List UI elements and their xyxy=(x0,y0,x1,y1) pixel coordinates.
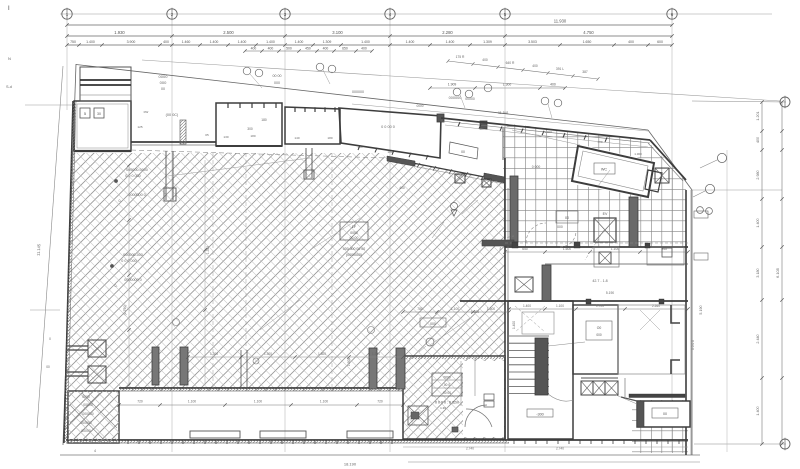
svg-text:400: 400 xyxy=(597,140,602,144)
trash connect wall xyxy=(621,397,637,401)
outside block top-left xyxy=(80,67,131,101)
svg-text:000000-000: 000000-000 xyxy=(123,253,143,257)
svg-text:1.100: 1.100 xyxy=(320,400,328,404)
grid axis vertical X3 xyxy=(284,20,286,453)
svg-text:0W: 0W xyxy=(144,110,149,114)
slanted dim chain upper xyxy=(448,61,598,79)
grid circle X5 xyxy=(500,9,510,19)
overall dim line xyxy=(67,24,672,26)
svg-text:EV: EV xyxy=(603,212,608,216)
svg-text:00000: 00000 xyxy=(465,97,475,101)
svg-text:720: 720 xyxy=(137,400,143,404)
svg-text:(0000000): (0000000) xyxy=(346,253,362,257)
svg-text:00: 00 xyxy=(663,412,667,416)
trash leader xyxy=(616,395,637,404)
left mat box lower xyxy=(88,366,106,383)
svg-text:1.400: 1.400 xyxy=(361,40,370,44)
svg-text:1.300: 1.300 xyxy=(544,130,552,134)
svg-text:1.650: 1.650 xyxy=(583,40,592,44)
svg-text:140: 140 xyxy=(357,145,362,149)
stair inner rect xyxy=(522,312,554,334)
entrance door arcs xyxy=(465,405,487,427)
entrance small box xyxy=(408,406,428,425)
grid circle X6 xyxy=(667,9,677,19)
mid wall y301 xyxy=(460,300,688,302)
svg-text:1.400: 1.400 xyxy=(756,218,760,227)
ev vestibule box xyxy=(594,247,619,267)
marker leaders xyxy=(250,74,262,88)
svg-text:00 00: 00 00 xyxy=(273,74,282,78)
svg-text:2.500: 2.500 xyxy=(223,30,234,35)
svg-text:000: 000 xyxy=(160,80,167,85)
right mid axis line xyxy=(692,189,782,191)
svg-text:00: 00 xyxy=(46,365,50,369)
ev leader xyxy=(585,230,604,260)
svg-text:400: 400 xyxy=(756,137,760,143)
grid circle X1 xyxy=(62,9,72,19)
room B window ticks xyxy=(227,103,229,108)
svg-text:600: 600 xyxy=(657,40,663,44)
svg-text:1.600: 1.600 xyxy=(563,247,571,251)
svg-text:0: 0 xyxy=(49,337,51,341)
grid axis vertical X2 xyxy=(171,20,173,453)
svg-text:400: 400 xyxy=(163,40,169,44)
bottom inner line xyxy=(403,446,688,448)
corridor bottom ticks xyxy=(127,440,129,444)
svg-text:00000: 00000 xyxy=(81,429,91,433)
grid circle X2 xyxy=(167,9,177,19)
wall band at tile bottom left xyxy=(482,240,514,246)
svg-text:30: 30 xyxy=(97,112,101,116)
pilaster a xyxy=(510,176,518,242)
trash room xyxy=(637,401,690,427)
shaft box left xyxy=(515,277,533,292)
circled note marker xyxy=(484,84,492,92)
right big room xyxy=(618,305,685,374)
W2 x-post b xyxy=(482,179,491,187)
svg-text:N: N xyxy=(8,56,11,61)
svg-text:400: 400 xyxy=(482,58,488,62)
bottom wall ticks right xyxy=(513,440,515,444)
bicycle room walls xyxy=(339,108,441,158)
bottom second line xyxy=(408,461,700,463)
bicycle bottom wall ticks xyxy=(358,146,360,151)
bottom wall poche xyxy=(66,440,509,443)
svg-text:1.909: 1.909 xyxy=(448,83,457,87)
left margin axis line 1 xyxy=(25,104,72,106)
svg-text:000000-0000: 000000-0000 xyxy=(126,168,148,172)
room right label box xyxy=(586,321,612,340)
svg-text:1.305: 1.305 xyxy=(471,310,479,314)
svg-text:1.300: 1.300 xyxy=(634,152,642,156)
svg-text:3.900: 3.900 xyxy=(127,40,136,44)
grid circle X3 xyxy=(280,9,290,19)
right outer wall xyxy=(685,190,687,455)
room right of stairs xyxy=(573,305,618,374)
stair stringer xyxy=(535,338,548,395)
right small circles xyxy=(697,207,704,214)
toilet right ext xyxy=(645,170,662,192)
sales floor dashed lines xyxy=(212,153,214,388)
sales floor hatch xyxy=(64,153,505,443)
toilet label box xyxy=(594,163,615,174)
svg-text:180: 180 xyxy=(327,136,332,140)
svg-text:1.300: 1.300 xyxy=(210,352,218,356)
svg-text:140: 140 xyxy=(294,136,299,140)
room A fixtures xyxy=(80,108,90,118)
svg-text:4.750: 4.750 xyxy=(583,30,594,35)
svg-text:1.100: 1.100 xyxy=(611,247,619,251)
backyard door arc2 xyxy=(500,236,514,250)
svg-text:S-d: S-d xyxy=(6,85,12,89)
svg-text:400: 400 xyxy=(550,83,556,87)
svg-text:0 000: 0 000 xyxy=(532,165,541,169)
corridor benches xyxy=(190,431,240,438)
right margin label box a xyxy=(694,211,708,218)
corner x-post xyxy=(655,168,669,183)
tile bottom dashed xyxy=(505,242,688,244)
svg-text:00-00: 00-00 xyxy=(350,236,359,240)
label center box xyxy=(340,222,368,240)
svg-text:4: 4 xyxy=(94,449,96,453)
svg-text:00: 00 xyxy=(461,150,465,154)
upper right dim row xyxy=(430,87,565,89)
svg-text:3.180: 3.180 xyxy=(756,268,760,277)
svg-text:300: 300 xyxy=(247,127,253,131)
svg-text:1.400: 1.400 xyxy=(295,40,304,44)
svg-text:1.400: 1.400 xyxy=(512,321,516,329)
svg-text:000000: 000000 xyxy=(449,96,462,100)
room B bottom wall xyxy=(216,145,282,147)
circled note marker xyxy=(255,69,263,77)
backyard dim row xyxy=(505,251,688,253)
svg-text:1.500: 1.500 xyxy=(347,358,351,366)
right margin label box b xyxy=(694,253,708,260)
right mid dim row y309 xyxy=(509,308,688,310)
svg-text:400: 400 xyxy=(628,40,634,44)
site boundary left xyxy=(63,64,76,445)
svg-text:1.100: 1.100 xyxy=(451,307,459,311)
svg-text:WC: WC xyxy=(601,168,608,172)
svg-text:42.7 - 1.8: 42.7 - 1.8 xyxy=(592,279,607,283)
svg-text:400: 400 xyxy=(399,186,405,190)
outside block double lines xyxy=(80,79,131,81)
loading label box xyxy=(420,318,446,327)
upper band label box xyxy=(449,142,478,159)
svg-text:0000: 0000 xyxy=(350,231,358,235)
mid pillar pair xyxy=(240,350,242,388)
svg-text:1F: 1F xyxy=(352,225,357,229)
svg-text:780: 780 xyxy=(417,307,423,311)
svg-text:1.100: 1.100 xyxy=(556,304,564,308)
right grid circle bottom xyxy=(780,439,790,449)
svg-text:1.400: 1.400 xyxy=(406,40,415,44)
entrance part bar xyxy=(452,427,458,432)
corridor dim row xyxy=(119,404,403,406)
svg-text:(1.790): (1.790) xyxy=(123,305,127,316)
entrance circle mark xyxy=(426,338,434,346)
svg-text:11.145: 11.145 xyxy=(36,243,42,256)
svg-text:720: 720 xyxy=(377,400,383,404)
stair treads xyxy=(509,335,549,337)
site boundary right xyxy=(691,190,693,455)
circled note marker xyxy=(316,63,324,71)
circled note marker xyxy=(465,90,473,98)
circled note marker xyxy=(328,65,336,73)
partition stub 1 xyxy=(165,151,167,200)
circled note marker xyxy=(453,88,461,96)
wc pillar pair right xyxy=(369,348,377,389)
svg-text:400: 400 xyxy=(251,46,257,50)
svg-text:1.400: 1.400 xyxy=(266,40,275,44)
right vestibule box xyxy=(647,247,684,265)
stair label xyxy=(527,409,553,417)
entrance inner partition xyxy=(460,361,462,406)
corridor band wall xyxy=(545,263,688,265)
right grid circle top xyxy=(780,97,790,107)
grid axis vertical X6 xyxy=(671,20,673,453)
sales vert dim x205 xyxy=(204,160,206,385)
right room corner L a xyxy=(671,305,680,323)
top right corner wall xyxy=(650,140,686,180)
bottom wall right part xyxy=(509,439,688,441)
bottom-left room walls xyxy=(68,391,119,443)
W2 thick segment a xyxy=(387,156,415,166)
svg-text:3.100: 3.100 xyxy=(332,30,343,35)
svg-text:000000: 000000 xyxy=(352,90,364,94)
svg-text:1.300: 1.300 xyxy=(372,352,380,356)
entrance white door area xyxy=(463,361,504,437)
W2 x-post a xyxy=(455,174,465,183)
corridor top wall xyxy=(119,387,403,389)
svg-text:O0: O0 xyxy=(597,326,602,330)
grid axis vertical X1 xyxy=(66,20,68,111)
svg-text:0000: 0000 xyxy=(159,74,169,79)
svg-text:1.309: 1.309 xyxy=(323,40,332,44)
left mat box upper xyxy=(88,340,106,357)
backyard door arc3 xyxy=(560,231,576,247)
svg-text:400: 400 xyxy=(532,64,538,68)
toilet inner line xyxy=(578,151,648,191)
site boundary diagonal 2 xyxy=(648,130,692,190)
svg-text:00: 00 xyxy=(565,216,569,220)
svg-text:180: 180 xyxy=(261,118,267,122)
svg-text:175 R: 175 R xyxy=(456,55,465,59)
right mid circle a xyxy=(717,153,726,162)
svg-text:750: 750 xyxy=(70,40,76,44)
svg-text:1.400: 1.400 xyxy=(446,40,455,44)
svg-text:1.500: 1.500 xyxy=(487,307,495,311)
svg-text:000000: 000000 xyxy=(82,412,93,416)
svg-text:125: 125 xyxy=(137,125,142,129)
svg-text:000 000 00 00: 000 000 00 00 xyxy=(343,247,365,251)
svg-text:5.190: 5.190 xyxy=(699,305,703,314)
svg-text:2.440: 2.440 xyxy=(756,334,760,343)
right mid circle b xyxy=(705,184,714,193)
svg-text:400: 400 xyxy=(268,46,274,50)
room B outline xyxy=(216,103,282,146)
site boundary diagonal xyxy=(76,65,648,131)
toilet leader xyxy=(598,170,610,186)
toilet room walls xyxy=(572,146,654,197)
circled note marker xyxy=(554,99,562,107)
trash room label xyxy=(652,408,678,418)
right axis top line xyxy=(692,101,786,102)
svg-text:0000000 0: 0000000 0 xyxy=(124,278,141,282)
svg-text:00: 00 xyxy=(161,87,165,91)
svg-text:5.190: 5.190 xyxy=(606,291,614,295)
hatch leader lines xyxy=(310,218,360,250)
partition stub 2 xyxy=(305,148,307,178)
svg-text:1.300: 1.300 xyxy=(264,352,272,356)
leader from note1 xyxy=(168,158,310,176)
svg-text:0 0 0 000: 0 0 0 000 xyxy=(125,174,140,178)
left outer wall xyxy=(64,101,73,443)
entrance top dim xyxy=(403,311,509,313)
right dimension chains xyxy=(761,102,763,444)
backyard label box xyxy=(556,211,578,223)
svg-text:650: 650 xyxy=(522,247,528,251)
svg-text:180: 180 xyxy=(250,134,255,138)
svg-text:18.190: 18.190 xyxy=(344,462,357,467)
svg-text:180: 180 xyxy=(387,150,392,154)
svg-text:1.395: 1.395 xyxy=(206,246,210,254)
shutter dashed line xyxy=(131,150,387,158)
small dims above vending rooms xyxy=(245,50,372,52)
left margin axis line 2 xyxy=(30,309,60,311)
tile inner slant line xyxy=(512,130,580,145)
svg-text:0000: 0000 xyxy=(443,376,450,380)
sales dim row y357 xyxy=(188,356,403,358)
svg-text:1.460: 1.460 xyxy=(182,40,191,44)
top axis line xyxy=(60,13,772,15)
room C window ticks xyxy=(294,107,296,112)
triangle marker in hatch xyxy=(451,210,457,216)
room A bottom wall xyxy=(74,150,131,152)
vending alcove side hatch xyxy=(180,120,186,144)
corner post a xyxy=(437,114,444,122)
circled note marker xyxy=(541,97,549,105)
wc pillar pair left xyxy=(152,347,159,385)
hatch leader near entrance xyxy=(430,318,470,345)
room C outline xyxy=(285,107,340,144)
svg-text:1.400: 1.400 xyxy=(238,40,247,44)
svg-text:000: 000 xyxy=(557,225,563,229)
svg-text:130: 130 xyxy=(223,135,228,139)
svg-text:0 0 0 0: 0 0 0 0 xyxy=(691,340,695,350)
left boundary dim line xyxy=(37,66,63,428)
svg-text:650: 650 xyxy=(342,46,348,50)
W2 thick segment b xyxy=(484,173,505,183)
svg-text:500: 500 xyxy=(286,46,292,50)
top right face wall xyxy=(441,118,650,140)
svg-text:6.105: 6.105 xyxy=(775,267,780,278)
inner slant wall W2 xyxy=(387,158,505,181)
svg-text:1.930: 1.930 xyxy=(114,30,125,35)
room A inner offset xyxy=(77,104,128,148)
tile left edge wall xyxy=(502,128,504,160)
svg-text:400: 400 xyxy=(361,46,367,50)
vending alcove rear wall xyxy=(131,141,216,143)
svg-text:1.39: 1.39 xyxy=(440,406,446,410)
corridor bottom wall xyxy=(66,439,509,441)
svg-text:1.100: 1.100 xyxy=(254,400,262,404)
right axis bottom line xyxy=(694,443,786,445)
circled note marker xyxy=(243,67,251,75)
svg-text:1.309: 1.309 xyxy=(483,40,492,44)
room A outline xyxy=(74,101,131,151)
svg-text:000: 000 xyxy=(274,81,280,85)
svg-text:450: 450 xyxy=(305,46,311,50)
wall y395 dark xyxy=(629,394,685,398)
svg-text:1.201: 1.201 xyxy=(756,111,760,120)
pilaster c xyxy=(542,265,551,301)
svg-text:1.400: 1.400 xyxy=(523,304,531,308)
svg-text:2.260: 2.260 xyxy=(652,304,660,308)
stair room walls xyxy=(508,301,573,439)
pilaster b xyxy=(629,197,638,247)
outside block extra line xyxy=(80,94,131,96)
wall piers y301 xyxy=(586,299,591,304)
mid wall y247 xyxy=(505,246,688,248)
backyard wall x505 xyxy=(504,158,506,441)
fine dimensions row xyxy=(67,44,672,46)
svg-text:00 00: 00 00 xyxy=(443,391,451,395)
svg-text:1.400: 1.400 xyxy=(210,40,219,44)
corner post b xyxy=(480,121,487,129)
tile area main xyxy=(503,124,686,247)
svg-text:00 0: 00 0 xyxy=(444,383,450,387)
right margin axis vertical xyxy=(726,150,728,452)
upper slanted guide line B2 xyxy=(142,60,780,101)
grid axis vertical X4 xyxy=(389,20,391,453)
bottom site boundary xyxy=(60,454,700,456)
stair leader lines xyxy=(548,342,585,346)
svg-text:1.300: 1.300 xyxy=(318,352,326,356)
svg-text:0 0 00 0: 0 0 00 0 xyxy=(381,125,395,129)
grid circle X4 xyxy=(385,9,395,19)
svg-text:11.930: 11.930 xyxy=(554,19,567,24)
svg-text:0000000 0: 0000000 0 xyxy=(128,193,145,197)
right room inner marks xyxy=(640,310,660,330)
svg-text:2.980: 2.980 xyxy=(756,170,760,179)
svg-text:0 0 0 0 : 6.32m: 0 0 0 0 : 6.32m xyxy=(435,401,459,405)
svg-text:1.400: 1.400 xyxy=(86,40,95,44)
entrance room walls xyxy=(403,356,505,439)
sales left inner dim chain xyxy=(128,165,130,385)
svg-text:387: 387 xyxy=(582,70,588,74)
wall piers y247 xyxy=(512,242,518,248)
svg-text:000: 000 xyxy=(430,322,436,326)
shaft boxes with X xyxy=(581,377,618,379)
svg-text:0000: 0000 xyxy=(416,104,423,108)
svg-text:1.100: 1.100 xyxy=(188,400,196,404)
svg-text:3.503: 3.503 xyxy=(528,40,537,44)
corridor top wall poche xyxy=(119,388,403,391)
svg-text:1.700: 1.700 xyxy=(596,304,604,308)
main span dimensions xyxy=(67,35,672,37)
right room corner L b xyxy=(671,360,680,374)
svg-text:-300: -300 xyxy=(536,413,544,417)
elevator shaft xyxy=(594,218,616,242)
tile white cover toilet xyxy=(572,144,656,198)
svg-text:(00 0C): (00 0C) xyxy=(166,113,179,117)
svg-text:640 R: 640 R xyxy=(506,61,515,65)
svg-text:05: 05 xyxy=(205,133,209,137)
tile area lower right xyxy=(632,400,688,453)
sales small circle markers xyxy=(173,319,180,326)
grid axis vertical X5 xyxy=(504,20,506,453)
